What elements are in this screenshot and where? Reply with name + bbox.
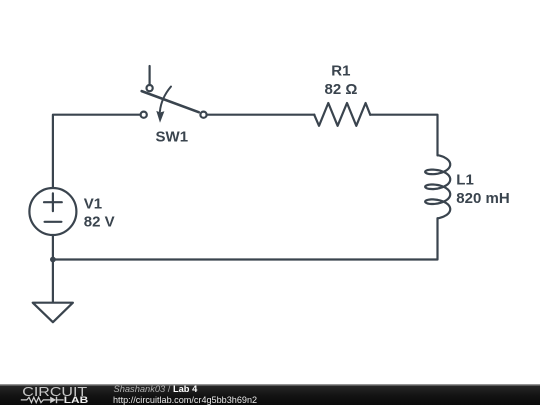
resistor R1: [314, 103, 370, 126]
wire: V1 bottom to junction: [52, 235, 54, 260]
switch SW1 top stub: [149, 66, 151, 85]
svg-text:L1: L1: [456, 172, 474, 189]
V1 plus sign: [44, 193, 62, 211]
wire: resistor to top-right corner down to inductor: [370, 115, 437, 156]
switch SW1 top terminal circle: [147, 85, 153, 91]
footer bar: [0, 384, 540, 405]
switch SW1 arrowhead: [156, 111, 164, 123]
wire: switch right terminal to resistor: [206, 114, 314, 116]
svg-text:82 V: 82 V: [84, 214, 115, 231]
svg-text:82 Ω: 82 Ω: [325, 81, 358, 98]
switch SW1 blade: [142, 91, 199, 112]
logo diode: [50, 397, 56, 404]
CircuitLab logo: [0, 384, 100, 405]
V1 minus sign: [45, 221, 62, 223]
switch SW1 left terminal circle: [141, 112, 147, 118]
voltage source V1: [29, 188, 76, 235]
svg-text:SW1: SW1: [156, 129, 189, 146]
ground: [33, 303, 73, 323]
wire: junction down to ground: [52, 260, 54, 303]
wire: top-left from V1 up and right to switch: [53, 115, 141, 187]
svg-text:820 mH: 820 mH: [456, 190, 509, 207]
svg-text:R1: R1: [331, 63, 350, 80]
svg-text:V1: V1: [84, 196, 102, 213]
footer text: [113, 383, 413, 385]
wire: inductor bottom to corner and left to junction: [53, 218, 438, 259]
svg-text:LAB: LAB: [64, 395, 89, 405]
switch SW1 right terminal circle: [200, 112, 206, 118]
logo resistor zigzag: [21, 397, 50, 402]
inductor L1 coil: [425, 155, 450, 218]
node junction dot: [50, 257, 56, 263]
switch SW1 motion arrow arc: [160, 87, 171, 112]
